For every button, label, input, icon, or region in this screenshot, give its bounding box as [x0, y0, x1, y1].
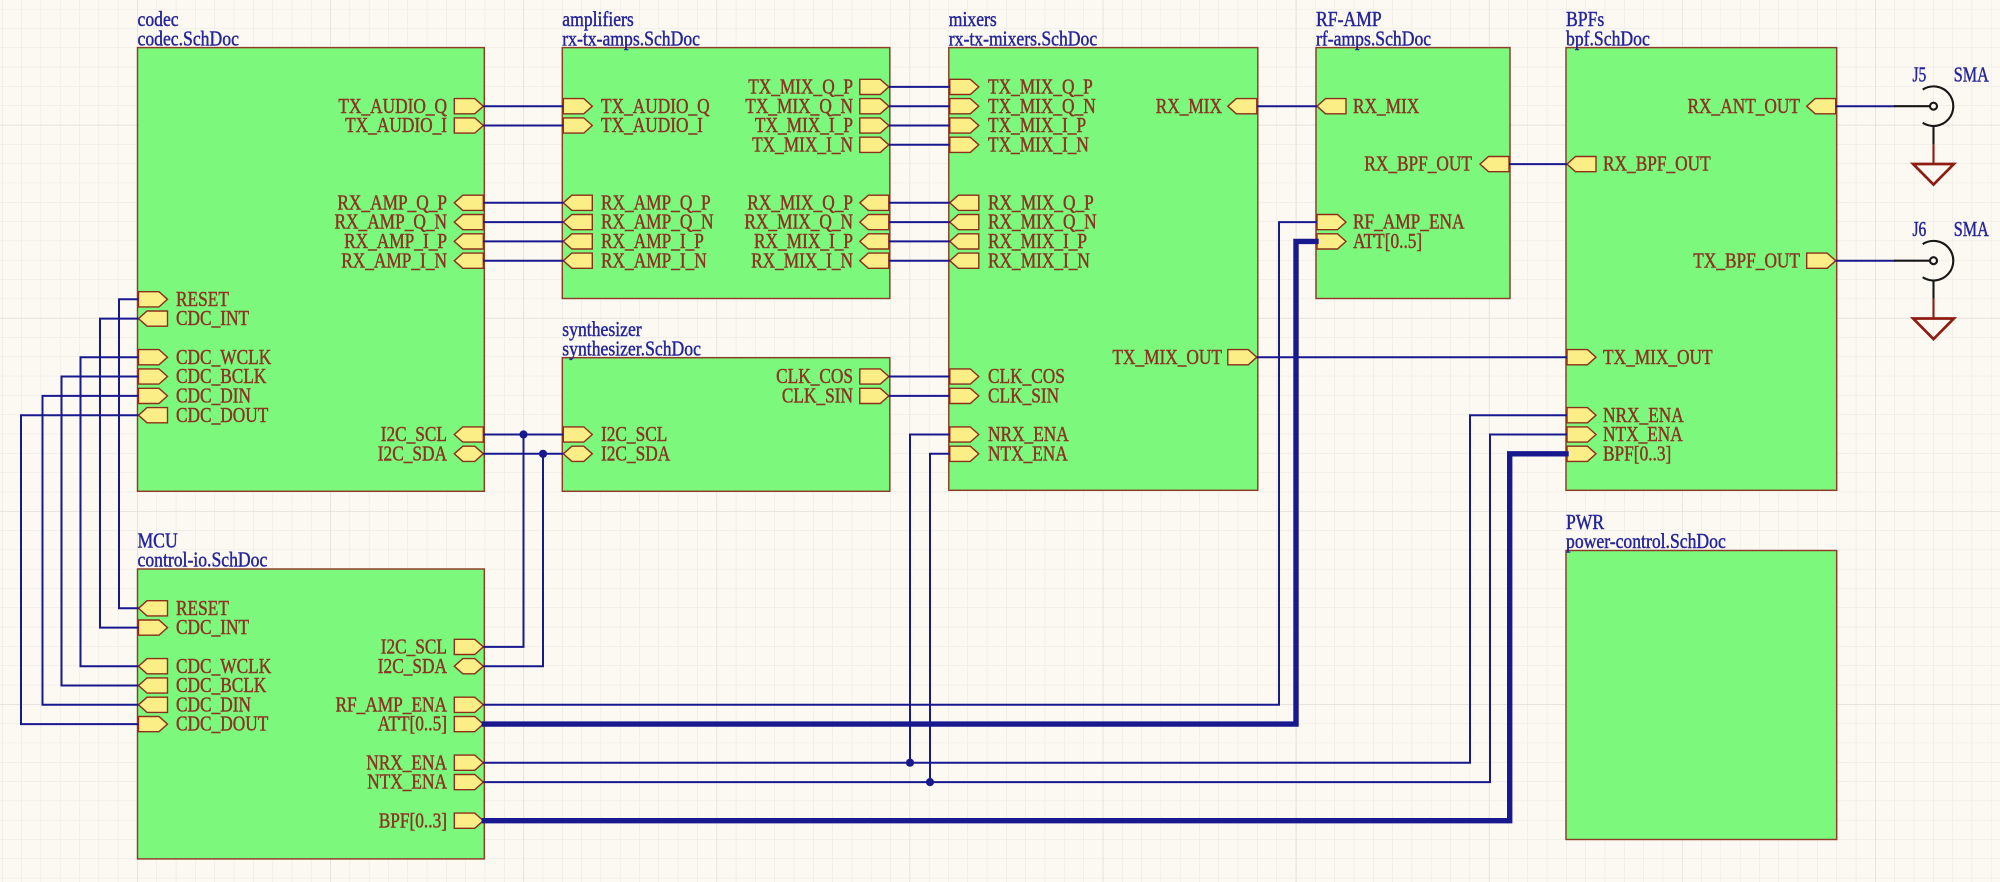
junction NRX_ENA [906, 759, 914, 767]
svg-text:SMA: SMA [1954, 63, 1990, 87]
junction NTX_ENA [926, 778, 934, 786]
sheet entry TX_MIX_Q_P (mixers) [950, 77, 1093, 99]
sheet entry RX_ANT_OUT (bpfs) [1688, 96, 1836, 118]
sheet entry NTX_ENA (mixers) [950, 443, 1068, 465]
svg-text:BPF[0..3]: BPF[0..3] [1603, 443, 1671, 465]
sheet entry RX_MIX_Q_P (mixers) [950, 192, 1094, 214]
svg-text:RX_ANT_OUT: RX_ANT_OUT [1688, 96, 1801, 118]
sheet entry I2C_SDA (synthesizer) [563, 443, 670, 465]
sheet entry I2C_SDA (codec) [378, 443, 484, 465]
bus BPF[0..3] bus MCU-bpfs [484, 454, 1566, 821]
sheet entry I2C_SDA (mcu) [378, 656, 484, 678]
sheet entry RF_AMP_ENA (mcu) [336, 694, 484, 716]
wire J6 shell to ground [1932, 281, 1934, 299]
sheet entry TX_MIX_OUT (mixers) [1112, 347, 1256, 369]
wire RX_MIX_Q_N mixers-amplifiers [890, 221, 949, 223]
sheet entry RX_MIX_I_P (amplifiers) [754, 231, 889, 253]
wire NTX_ENA branch to mixers [930, 454, 949, 782]
sheet symbol BPFs (bpf.SchDoc) [1566, 7, 1837, 490]
wire RX_MIX_Q_P mixers-amplifiers [890, 202, 949, 204]
wire CDC_DOUT codec-MCU [21, 415, 138, 724]
svg-text:I2C_SDA: I2C_SDA [378, 443, 447, 465]
sheet entry TX_AUDIO_Q (codec) [338, 96, 483, 118]
sheet entry CDC_DIN (codec) [139, 386, 252, 408]
svg-text:synthesizer.SchDoc: synthesizer.SchDoc [562, 336, 701, 360]
sheet symbol codec (codec.SchDoc) [138, 7, 485, 491]
sheet symbol PWR (power-control.SchDoc) [1566, 510, 1837, 840]
wire I2C_SDA codec-synthesizer [484, 453, 562, 455]
sheet entry NRX_ENA (mixers) [950, 424, 1069, 446]
sheet entry RX_MIX_I_N (mixers) [950, 250, 1090, 272]
sheet entry TX_BPF_OUT (bpfs) [1693, 250, 1835, 272]
wire TX_AUDIO_I codec-amplifiers [484, 125, 562, 127]
sheet entry RF_AMP_ENA (rfamp) [1317, 212, 1465, 234]
sheet entry CLK_COS (synthesizer) [776, 366, 889, 388]
wire RX_AMP_I_P amplifiers-codec [484, 240, 562, 242]
sheet entry TX_MIX_I_N (mixers) [950, 134, 1089, 156]
svg-text:CDC_DOUT: CDC_DOUT [176, 405, 269, 427]
sheet entry CDC_INT (codec) [139, 308, 250, 330]
svg-text:power-control.SchDoc: power-control.SchDoc [1566, 529, 1726, 553]
svg-text:TX_AUDIO_I: TX_AUDIO_I [601, 115, 703, 137]
sheet symbol mixers (rx-tx-mixers.SchDoc) [949, 7, 1258, 490]
sheet entry RESET (codec) [139, 289, 230, 311]
sheet entry TX_AUDIO_I (codec) [345, 115, 483, 137]
sheet entry CDC_DIN (mcu) [139, 694, 252, 716]
sheet entry TX_MIX_OUT (bpfs) [1567, 347, 1713, 369]
sheet entry CDC_WCLK (codec) [139, 347, 272, 369]
sheet entry RX_AMP_I_N (codec) [341, 250, 483, 272]
wire NTX_ENA MCU-bpfs [484, 435, 1566, 783]
svg-text:ATT[0..5]: ATT[0..5] [378, 714, 447, 736]
svg-text:J5: J5 [1913, 63, 1927, 87]
wire I2C_SDA branch to MCU [484, 454, 543, 666]
sheet entry I2C_SCL (mcu) [381, 637, 484, 659]
wire RX_ANT_OUT bpfs-J5 [1837, 105, 1894, 107]
svg-text:ATT[0..5]: ATT[0..5] [1353, 231, 1422, 253]
sheet entry ATT[0..5] (rfamp) [1317, 231, 1422, 253]
svg-text:I2C_SDA: I2C_SDA [378, 656, 447, 678]
sheet entry TX_MIX_Q_N (amplifiers) [745, 96, 889, 118]
wire CLK_COS synthesizer-mixers [890, 376, 949, 378]
svg-text:RX_BPF_OUT: RX_BPF_OUT [1364, 154, 1472, 176]
sheet entry CLK_COS (mixers) [950, 366, 1065, 388]
wire I2C_SCL codec-synthesizer [484, 434, 562, 436]
sheet entry CLK_SIN (synthesizer) [782, 386, 889, 408]
sheet symbol MCU (control-io.SchDoc) [138, 528, 485, 859]
sheet entry I2C_SCL (codec) [381, 424, 484, 446]
sheet entry BPF[0..3] (mcu) [379, 810, 484, 832]
svg-text:TX_MIX_I_N: TX_MIX_I_N [988, 134, 1089, 156]
sheet entry CDC_WCLK (mcu) [139, 656, 272, 678]
svg-text:RX_MIX: RX_MIX [1353, 96, 1419, 118]
wire J5 shell to ground [1932, 126, 1934, 144]
sheet entry CLK_SIN (mixers) [950, 386, 1059, 408]
svg-text:NTX_ENA: NTX_ENA [988, 443, 1068, 465]
wire CDC_INT codec-MCU [100, 319, 138, 628]
sheet entry RX_MIX_Q_N (mixers) [950, 212, 1097, 234]
ground J6 [1913, 319, 1954, 340]
sheet entry RX_MIX_Q_P (amplifiers) [747, 192, 889, 214]
sheet entry RX_AMP_Q_N (codec) [335, 212, 484, 234]
sheet entry I2C_SCL (synthesizer) [563, 424, 667, 446]
svg-text:control-io.SchDoc: control-io.SchDoc [138, 548, 268, 572]
wire TX_MIX_OUT mixers-bpfs [1258, 356, 1566, 358]
wire RX_MIX_I_N mixers-amplifiers [890, 260, 949, 262]
wire I2C_SCL branch to MCU [484, 435, 523, 647]
svg-text:CDC_DOUT: CDC_DOUT [176, 714, 269, 736]
wire CLK_SIN synthesizer-mixers [890, 395, 949, 397]
svg-text:TX_MIX_OUT: TX_MIX_OUT [1112, 347, 1222, 369]
sheet entry RX_AMP_I_P (codec) [344, 231, 483, 253]
sheet entry TX_MIX_Q_P (amplifiers) [748, 77, 889, 99]
wire CDC_DIN codec-MCU [43, 396, 138, 705]
svg-text:TX_AUDIO_I: TX_AUDIO_I [345, 115, 447, 137]
svg-text:rx-tx-mixers.SchDoc: rx-tx-mixers.SchDoc [949, 26, 1097, 50]
svg-text:TX_MIX_OUT: TX_MIX_OUT [1603, 347, 1713, 369]
sheet entry RX_MIX_Q_N (amplifiers) [744, 212, 888, 234]
svg-text:bpf.SchDoc: bpf.SchDoc [1566, 26, 1650, 50]
wire RX_AMP_Q_P amplifiers-codec [484, 202, 562, 204]
sheet entry RX_BPF_OUT (rfamp) [1364, 154, 1509, 176]
sheet entry RX_AMP_Q_P (amplifiers) [563, 192, 710, 214]
wire CDC_BCLK codec-MCU [62, 377, 138, 686]
wire CDC_WCLK codec-MCU [81, 357, 138, 666]
sheet entry CDC_BCLK (codec) [139, 366, 267, 388]
wire RESET codec-MCU [119, 299, 138, 608]
svg-text:TX_BPF_OUT: TX_BPF_OUT [1693, 250, 1800, 272]
svg-text:CDC_INT: CDC_INT [176, 617, 249, 639]
sheet symbol synthesizer (synthesizer.SchDoc) [562, 317, 890, 491]
sheet entry TX_MIX_Q_N (mixers) [950, 96, 1096, 118]
wire RX_MIX mixers-rfamp [1258, 105, 1316, 107]
sheet entry RX_BPF_OUT (bpfs) [1567, 154, 1711, 176]
sheet symbol RF-AMP (rf-amps.SchDoc) [1316, 7, 1510, 299]
svg-text:RX_AMP_I_N: RX_AMP_I_N [341, 250, 447, 272]
sheet entry RX_MIX (mixers) [1156, 96, 1257, 118]
connector J5 SMA [1894, 63, 1989, 127]
svg-text:rf-amps.SchDoc: rf-amps.SchDoc [1316, 26, 1431, 50]
junction I2C_SDA [539, 450, 547, 458]
wire TX_MIX_I_P amplifiers-mixers [890, 125, 949, 127]
sheet entry RX_AMP_Q_P (codec) [337, 192, 483, 214]
sheet entry TX_AUDIO_Q (amplifiers) [563, 96, 709, 118]
wire NRX_ENA branch to mixers [910, 435, 949, 763]
ground J5 [1913, 164, 1954, 185]
sheet entry ATT[0..5] (mcu) [378, 714, 484, 736]
sheet entry RX_MIX_I_P (mixers) [950, 231, 1087, 253]
wire TX_MIX_Q_N amplifiers-mixers [890, 105, 949, 107]
wire TX_AUDIO_Q codec-amplifiers [484, 105, 562, 107]
sheet entry BPF[0..3] (bpfs) [1567, 443, 1671, 465]
junction I2C_SCL [519, 430, 527, 438]
svg-text:RX_MIX: RX_MIX [1156, 96, 1222, 118]
svg-text:codec.SchDoc: codec.SchDoc [138, 26, 239, 50]
sheet entry RX_MIX_I_N (amplifiers) [751, 250, 889, 272]
sheet entry NTX_ENA (bpfs) [1567, 424, 1683, 446]
svg-text:RX_AMP_I_N: RX_AMP_I_N [601, 250, 707, 272]
sheet entry TX_MIX_I_N (amplifiers) [752, 134, 889, 156]
sheet entry RX_AMP_Q_N (amplifiers) [563, 212, 713, 234]
svg-text:CLK_SIN: CLK_SIN [988, 386, 1059, 408]
wire TX_BPF_OUT bpfs-J6 [1837, 260, 1894, 262]
sheet entry RX_MIX (rfamp) [1317, 96, 1419, 118]
sheet entry NTX_ENA (mcu) [367, 772, 483, 794]
wire RX_AMP_Q_N amplifiers-codec [484, 221, 562, 223]
svg-text:RX_BPF_OUT: RX_BPF_OUT [1603, 154, 1711, 176]
sheet entry CDC_DOUT (codec) [139, 405, 269, 427]
sheet symbol amplifiers (rx-tx-amps.SchDoc) [562, 7, 890, 299]
wire NRX_ENA MCU-bpfs [484, 415, 1566, 763]
svg-text:TX_MIX_I_N: TX_MIX_I_N [752, 134, 853, 156]
svg-text:RX_MIX_I_N: RX_MIX_I_N [988, 250, 1090, 272]
sheet entry TX_MIX_I_P (mixers) [950, 115, 1086, 137]
sheet entry RX_AMP_I_N (amplifiers) [563, 250, 707, 272]
sheet entry TX_MIX_I_P (amplifiers) [755, 115, 889, 137]
wire RX_AMP_I_N amplifiers-codec [484, 260, 562, 262]
wire TX_MIX_Q_P amplifiers-mixers [890, 86, 949, 88]
svg-text:SMA: SMA [1954, 217, 1990, 241]
svg-text:J6: J6 [1913, 217, 1927, 241]
sheet entry RESET (mcu) [139, 598, 230, 620]
sheet entry TX_AUDIO_I (amplifiers) [563, 115, 703, 137]
sheet entry NRX_ENA (bpfs) [1567, 405, 1684, 427]
sheet entry NRX_ENA (mcu) [366, 752, 483, 774]
svg-text:CDC_INT: CDC_INT [176, 308, 249, 330]
wire RX_MIX_I_P mixers-amplifiers [890, 240, 949, 242]
svg-text:CLK_SIN: CLK_SIN [782, 386, 853, 408]
connector J6 SMA [1894, 217, 1989, 281]
svg-text:rx-tx-amps.SchDoc: rx-tx-amps.SchDoc [562, 26, 700, 50]
wire RF_AMP_ENA MCU-rfamp [484, 222, 1316, 705]
svg-text:RX_MIX_I_N: RX_MIX_I_N [751, 250, 853, 272]
svg-text:I2C_SDA: I2C_SDA [601, 443, 670, 465]
svg-text:NTX_ENA: NTX_ENA [367, 772, 447, 794]
wire TX_MIX_I_N amplifiers-mixers [890, 144, 949, 146]
sheet entry RX_AMP_I_P (amplifiers) [563, 231, 704, 253]
svg-text:BPF[0..3]: BPF[0..3] [379, 810, 447, 832]
wire RX_BPF_OUT rfamp-bpfs [1510, 163, 1566, 165]
sheet entry CDC_INT (mcu) [139, 617, 250, 639]
sheet entry CDC_BCLK (mcu) [139, 675, 267, 697]
sheet entry CDC_DOUT (mcu) [139, 714, 269, 736]
bus ATT[0..5] bus MCU-rfamp [484, 241, 1316, 724]
